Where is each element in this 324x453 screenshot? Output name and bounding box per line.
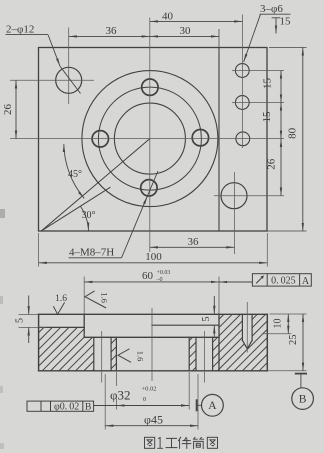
100 dim right extension bbox=[266, 233, 268, 267]
svg-text:26: 26 bbox=[266, 158, 278, 170]
leader 2-phi12 tail through hole bbox=[60, 66, 81, 93]
svg-text:10: 10 bbox=[273, 319, 284, 329]
section bottom surface bbox=[39, 370, 268, 372]
bolt circle phi45 bbox=[98, 87, 201, 190]
svg-text:15: 15 bbox=[280, 16, 292, 28]
phi32 leader from frame bbox=[94, 405, 117, 407]
svg-text:1.6: 1.6 bbox=[100, 292, 110, 303]
phi12 hole 2 vertical center line bbox=[233, 172, 235, 254]
dim 5 left lower arrow bbox=[28, 327, 30, 343]
hatch left rim block bbox=[39, 327, 85, 370]
runout frame leader bbox=[219, 281, 252, 283]
svg-text:5: 5 bbox=[201, 317, 212, 322]
4-M8-7H underline bbox=[69, 257, 122, 259]
25 bottom extension bbox=[267, 370, 306, 372]
phi45 left extension bbox=[104, 374, 106, 430]
depth symbol bar bbox=[272, 17, 281, 19]
svg-text:B: B bbox=[299, 394, 307, 406]
dim 5 right upper arrow bbox=[213, 296, 215, 314]
svg-text:φ0. 02: φ0. 02 bbox=[54, 401, 79, 412]
svg-text:15: 15 bbox=[262, 78, 274, 90]
horizontal center line bbox=[10, 138, 284, 140]
dim 100 line bbox=[39, 262, 268, 264]
5 left top extension bbox=[19, 313, 39, 315]
svg-text:100: 100 bbox=[145, 251, 162, 263]
M8L hole left wall bbox=[93, 337, 95, 371]
caption char tu (2nd) bbox=[207, 437, 217, 448]
roughness symbol boss left face bbox=[85, 291, 106, 308]
phi32 right extension bbox=[188, 372, 190, 410]
caption char 1 bbox=[158, 438, 163, 449]
10 bottom extension bbox=[262, 333, 292, 335]
phi6 hole 3 bbox=[236, 132, 250, 146]
leader 3-phi6 bbox=[244, 14, 261, 62]
runout symbol bbox=[256, 276, 263, 283]
100 dim left extension bbox=[38, 233, 40, 267]
datum A bar bbox=[196, 399, 198, 411]
svg-text:30: 30 bbox=[180, 25, 192, 37]
phi32 bore right wall bbox=[188, 337, 190, 371]
depth symbol arrow bbox=[275, 18, 277, 34]
dim 60 line bbox=[84, 281, 219, 283]
svg-text:0. 025: 0. 025 bbox=[271, 276, 296, 287]
M8R hole right wall bbox=[212, 337, 214, 371]
2-phi12 underline bbox=[6, 34, 49, 36]
leader 4-M8-7H arrow segment bbox=[122, 196, 148, 258]
phi6 hole 2 bbox=[235, 96, 249, 110]
dim 5 left upper arrow bbox=[28, 296, 30, 315]
leader 4-M8-7H tail bbox=[147, 171, 158, 196]
svg-text:26: 26 bbox=[2, 104, 14, 116]
frame phi0.02 B box bbox=[27, 401, 94, 411]
M8 hole bottom bbox=[141, 180, 157, 196]
3-phi6 underline bbox=[260, 13, 291, 15]
dim 30 line bbox=[150, 35, 219, 37]
svg-text:40: 40 bbox=[162, 11, 174, 23]
section dimensions bbox=[29, 263, 314, 426]
hatch strip right of M8R hole bbox=[213, 337, 219, 371]
60 dim left extension bbox=[83, 277, 85, 315]
phi6 column center line bbox=[241, 15, 243, 149]
leader 2-phi12 arrow segment bbox=[48, 35, 60, 67]
svg-text:φ45: φ45 bbox=[144, 413, 163, 427]
datum B stem bbox=[300, 374, 302, 388]
boss circle phi60 bbox=[82, 71, 218, 207]
dim chain 26 bbox=[280, 139, 282, 196]
bore circle phi32 bbox=[114, 103, 185, 174]
svg-text:36: 36 bbox=[188, 236, 200, 248]
phi12 hole lower-right bbox=[221, 183, 247, 209]
dim 5 right lower arrow bbox=[213, 325, 215, 336]
svg-text:–0: –0 bbox=[156, 277, 163, 283]
dim 26 left line bbox=[15, 80, 17, 138]
concentricity tolerance frame bbox=[27, 401, 94, 411]
svg-text:0: 0 bbox=[143, 396, 146, 403]
phi6 hole 2 horizontal tick / ext bbox=[232, 102, 284, 104]
datum A circle bbox=[202, 394, 224, 416]
phi6 hole 1 horizontal tick / ext bbox=[232, 70, 284, 72]
dim 36 bottom line bbox=[150, 246, 235, 248]
M8 hole left bbox=[92, 131, 108, 147]
hatch right rim block bbox=[219, 314, 267, 371]
section left face bbox=[38, 314, 40, 371]
dim 80 top extension bbox=[269, 47, 307, 49]
10/25 top extension bbox=[270, 313, 307, 315]
dim 40 line bbox=[150, 20, 243, 22]
30 deg construction line bbox=[42, 188, 111, 231]
svg-text:80: 80 bbox=[287, 127, 299, 139]
hatch strip between bore and M8R bbox=[189, 337, 196, 371]
svg-text:A: A bbox=[302, 276, 310, 287]
roughness symbol bore wall bbox=[118, 349, 131, 363]
step edge line at x=219 bbox=[218, 48, 220, 232]
recess bottom / counterbore shoulder bbox=[84, 336, 219, 338]
dim 10 line bbox=[287, 314, 289, 334]
caption char tu (1st) bbox=[145, 437, 155, 448]
datum B bar bbox=[295, 373, 307, 375]
section top surface bbox=[39, 313, 268, 315]
caption char gong bbox=[166, 438, 177, 447]
phi12 hole upper-left bbox=[56, 67, 82, 93]
svg-text:30°: 30° bbox=[82, 210, 96, 221]
main bore center line bbox=[151, 308, 153, 381]
svg-text:+0.02: +0.02 bbox=[142, 386, 157, 393]
datum B circle bbox=[292, 388, 314, 410]
5 left bottom extension bbox=[19, 326, 47, 328]
roughness symbol top-left bbox=[53, 302, 64, 314]
frame 0.025 A box bbox=[252, 274, 311, 286]
phi6 blind hole right wall bbox=[251, 314, 253, 340]
svg-text:4–M8–7H: 4–M8–7H bbox=[69, 247, 114, 259]
phi6 hole 1 bbox=[235, 64, 249, 78]
M8 hole right bbox=[192, 130, 208, 146]
45 deg arc bbox=[64, 144, 84, 198]
dim phi45 line bbox=[105, 425, 198, 427]
svg-text:45°: 45° bbox=[68, 169, 82, 180]
45 deg construction line to corner bbox=[42, 139, 150, 231]
phi12 hole 1 horizontal center line bbox=[10, 79, 94, 81]
M8R hole left wall bbox=[195, 337, 197, 371]
top view dimension texts bbox=[2, 3, 299, 259]
phi6 drill point bbox=[242, 340, 252, 349]
M8 hole top bbox=[142, 79, 158, 95]
dim 80 line bbox=[302, 48, 304, 232]
svg-text:15: 15 bbox=[261, 111, 273, 123]
dim chain 15 (upper) bbox=[280, 71, 282, 103]
phi6 hole center line bbox=[246, 302, 248, 353]
svg-text:B: B bbox=[85, 403, 91, 413]
dim 25 line bbox=[302, 314, 304, 371]
vertical center line bbox=[149, 18, 151, 253]
boss left edge bbox=[83, 314, 85, 337]
60 dim right extension bbox=[218, 277, 220, 315]
svg-text:+0.03: +0.03 bbox=[157, 270, 171, 276]
phi32 left extension bbox=[115, 372, 117, 386]
caption: 图1 工件简图 drawn as strokes bbox=[145, 437, 218, 448]
dim chain 15 (lower) bbox=[280, 103, 282, 139]
right half step (5 deep) bbox=[152, 324, 219, 326]
svg-text:5: 5 bbox=[15, 318, 26, 323]
M8L center line bbox=[101, 331, 103, 383]
30 deg arc bbox=[80, 206, 88, 230]
boss right edge bbox=[218, 314, 220, 371]
phi6 blind hole white cutout bbox=[242, 314, 252, 349]
caption char jian(simple) bbox=[193, 437, 203, 448]
center lines bbox=[10, 15, 284, 255]
hatch strip between M8L and bore bbox=[111, 337, 116, 371]
dim phi32 line bbox=[116, 405, 189, 407]
dim 80 bottom extension bbox=[255, 230, 307, 232]
phi6 blind hole left wall bbox=[241, 314, 243, 340]
plate outline 100x80 bbox=[39, 48, 268, 232]
svg-text:1.6: 1.6 bbox=[55, 294, 67, 304]
section center lines bbox=[19, 233, 307, 430]
section texts bbox=[15, 251, 310, 427]
caption char jian(piece) bbox=[179, 437, 191, 448]
svg-text:A: A bbox=[208, 400, 217, 412]
phi12 hole 1 vertical center line bbox=[68, 28, 70, 105]
svg-text:1.6: 1.6 bbox=[136, 351, 146, 362]
section right face bbox=[266, 314, 268, 371]
phi12 hole 2 horizontal center line bbox=[214, 195, 284, 197]
svg-text:60: 60 bbox=[142, 270, 154, 282]
svg-text:φ32: φ32 bbox=[110, 387, 131, 402]
hatch strip left of M8L hole bbox=[84, 337, 94, 371]
dim 30 top extension bbox=[218, 29, 220, 48]
dim 36 line bbox=[69, 35, 150, 37]
svg-text:36: 36 bbox=[106, 25, 118, 37]
phi32 bore left wall bbox=[115, 337, 117, 371]
svg-text:2–φ12: 2–φ12 bbox=[6, 24, 34, 36]
runout tolerance frame bbox=[252, 274, 311, 286]
left rim top (5 step) bbox=[39, 326, 85, 328]
svg-text:25: 25 bbox=[288, 334, 299, 345]
phi45 right extension bbox=[197, 374, 199, 430]
M8L hole right wall bbox=[110, 337, 112, 371]
datum A stem bbox=[197, 404, 202, 406]
M8R center line bbox=[203, 331, 205, 383]
svg-text:3–φ6: 3–φ6 bbox=[260, 3, 283, 15]
